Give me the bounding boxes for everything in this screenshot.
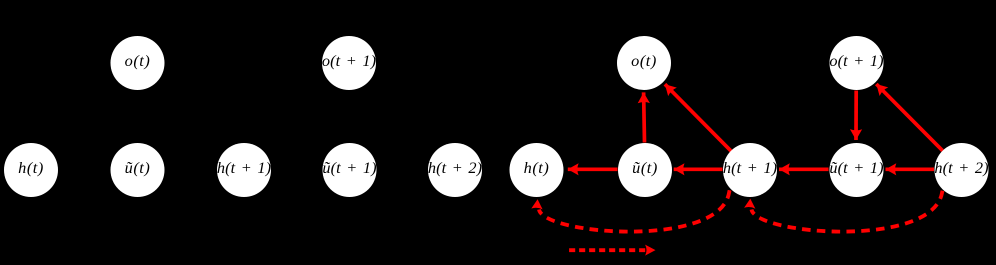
legend dashed arrow <box>569 248 645 252</box>
svg-text:h(t + 1): h(t + 1) <box>723 158 777 177</box>
node u~(t+1) left <box>322 143 376 197</box>
svg-text:ũ(t): ũ(t) <box>125 158 151 177</box>
svg-text:h(t): h(t) <box>524 158 550 177</box>
wire h(t+2) to h(t+1) dashed curved arrow <box>752 185 944 232</box>
node o(t+1) left <box>322 36 376 90</box>
svg-text:h(t + 2): h(t + 2) <box>428 158 482 177</box>
wire u~(t) to o(t) red vertical arrow <box>642 92 647 142</box>
svg-text:ũ(t): ũ(t) <box>632 158 658 177</box>
node u~(t) right <box>618 143 672 197</box>
arrowhead of dashed curve into h(t) <box>531 199 542 209</box>
svg-text:o(t): o(t) <box>125 51 151 70</box>
svg-text:ũ(t + 1): ũ(t + 1) <box>829 158 883 177</box>
node h(t+2) left <box>428 143 482 197</box>
svg-text:ũ(t + 1): ũ(t + 1) <box>322 158 376 177</box>
wire h(t+2) to o(t+1) red diagonal arrow <box>876 84 942 151</box>
wire u~(t+1) to h(t+1) red horizontal arrow <box>779 167 829 171</box>
node h(t) left <box>4 143 58 197</box>
svg-text:h(t + 1): h(t + 1) <box>217 158 271 177</box>
arrowhead of dashed curve into h(t+1) <box>744 199 755 209</box>
node h(t+1) right <box>723 143 777 197</box>
wire h(t+1) to h(t) dashed curved arrow <box>539 185 731 232</box>
node h(t+2) right <box>934 143 988 197</box>
svg-text:o(t + 1): o(t + 1) <box>322 51 376 70</box>
wire h(t+1) to u~(t) red horizontal arrow <box>674 167 723 171</box>
wire o(t+1) to u~(t+1) red vertical arrow <box>854 91 858 141</box>
svg-text:o(t): o(t) <box>631 51 657 70</box>
svg-text:h(t + 2): h(t + 2) <box>934 158 988 177</box>
wire h(t+2) to u~(t+1) red horizontal arrow <box>886 167 935 171</box>
node o(t+1) right <box>829 36 883 90</box>
node h(t) right <box>510 143 564 197</box>
svg-text:o(t + 1): o(t + 1) <box>829 51 883 70</box>
node u~(t+1) right <box>829 143 883 197</box>
svg-text:h(t): h(t) <box>18 158 44 177</box>
node h(t+1) left <box>217 143 271 197</box>
wire h(t+1) to o(t) red diagonal arrow <box>665 84 731 151</box>
node o(t) left <box>111 36 165 90</box>
wire u~(t) to h(t) red horizontal arrow <box>568 167 618 171</box>
node u~(t) left <box>111 143 165 197</box>
node o(t) right <box>617 36 671 90</box>
